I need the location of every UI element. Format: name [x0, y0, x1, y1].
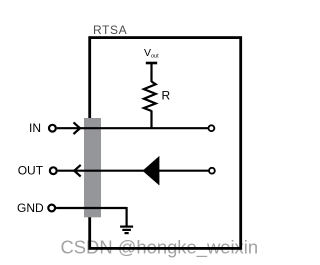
svg-text:IN: IN	[29, 121, 41, 135]
svg-text:OUT: OUT	[18, 164, 44, 178]
svg-text:RTSA: RTSA	[93, 23, 127, 37]
svg-text:V: V	[144, 47, 151, 59]
svg-text:R: R	[162, 89, 171, 103]
svg-text:GND: GND	[17, 201, 44, 215]
svg-text:out: out	[151, 53, 159, 59]
